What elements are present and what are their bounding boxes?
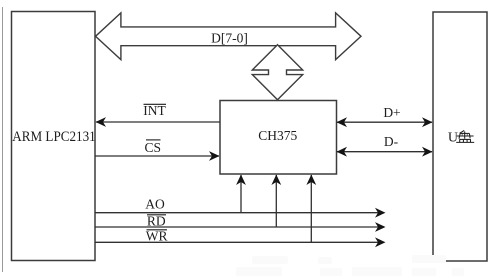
svg-text:CS: CS [145, 140, 162, 155]
wire AO [95, 212, 384, 214]
svg-text:RD: RD [147, 213, 166, 228]
block U3 U盘 [433, 12, 487, 261]
bidirectional arrow bus-CH375 [252, 45, 302, 100]
bus arrow D[7-0] [96, 13, 362, 60]
wire RD [95, 226, 384, 228]
arrowhead D- right [422, 147, 433, 157]
wire D- [337, 151, 432, 153]
arrowhead D+ left [337, 117, 348, 127]
wire branch RD to CH375 [275, 175, 277, 227]
faint artifacts bottom [236, 255, 464, 276]
arrowhead branch RD [271, 175, 281, 186]
arrowhead WR [375, 237, 386, 247]
arrowhead INT [96, 117, 107, 127]
arrowhead RD [375, 222, 386, 232]
block U2 CH375 [220, 101, 337, 175]
svg-text:D[7-0]: D[7-0] [211, 31, 248, 46]
arrowhead CS [209, 151, 220, 161]
wire branch A0 to CH375 [240, 175, 242, 213]
svg-text:WR: WR [146, 228, 168, 243]
svg-text:D-: D- [384, 134, 399, 149]
wire D+ [337, 121, 432, 123]
arrowhead D+ right [422, 117, 433, 127]
wire INT [96, 121, 220, 123]
wire WR [95, 241, 384, 243]
svg-text:CH375: CH375 [258, 128, 297, 143]
svg-text:ARM LPC2131: ARM LPC2131 [12, 129, 96, 145]
scan edge line [2, 7, 4, 272]
svg-text:D+: D+ [383, 105, 400, 120]
svg-text:U: U [448, 130, 458, 145]
arrowhead AO [375, 208, 386, 218]
svg-text:INT: INT [143, 103, 166, 118]
wire branch WR to CH375 [310, 175, 312, 242]
arrowhead branch WR [306, 175, 316, 186]
arrowhead branch A0 [236, 175, 246, 186]
glyph pan 盘 [456, 130, 474, 142]
wire CS [95, 155, 219, 157]
svg-text:AO: AO [145, 197, 165, 212]
block U1 ARM LPC2131 [12, 12, 96, 261]
arrowhead D- left [337, 147, 348, 157]
